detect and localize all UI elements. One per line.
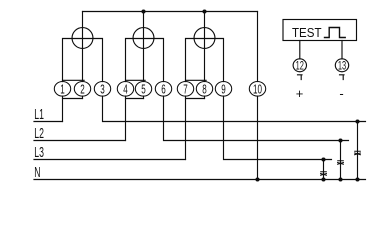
svg-text:9: 9 bbox=[221, 82, 225, 96]
svg-text:6: 6 bbox=[161, 82, 165, 96]
svg-text:L3: L3 bbox=[34, 144, 44, 161]
svg-text:8: 8 bbox=[202, 82, 206, 96]
svg-text:N: N bbox=[34, 163, 40, 180]
svg-text:7: 7 bbox=[183, 82, 187, 96]
svg-text:+: + bbox=[296, 86, 304, 101]
svg-text:L1: L1 bbox=[34, 106, 44, 123]
svg-text:4: 4 bbox=[123, 82, 127, 96]
svg-text:-: - bbox=[339, 86, 343, 101]
svg-text:12: 12 bbox=[296, 60, 305, 73]
svg-text:2: 2 bbox=[80, 82, 84, 96]
svg-text:3: 3 bbox=[100, 82, 104, 96]
svg-text:10: 10 bbox=[253, 82, 262, 96]
svg-text:13: 13 bbox=[338, 60, 347, 73]
svg-text:5: 5 bbox=[141, 82, 145, 96]
svg-text:L2: L2 bbox=[34, 124, 44, 141]
svg-text:1: 1 bbox=[60, 82, 64, 96]
svg-text:TEST: TEST bbox=[292, 25, 322, 40]
